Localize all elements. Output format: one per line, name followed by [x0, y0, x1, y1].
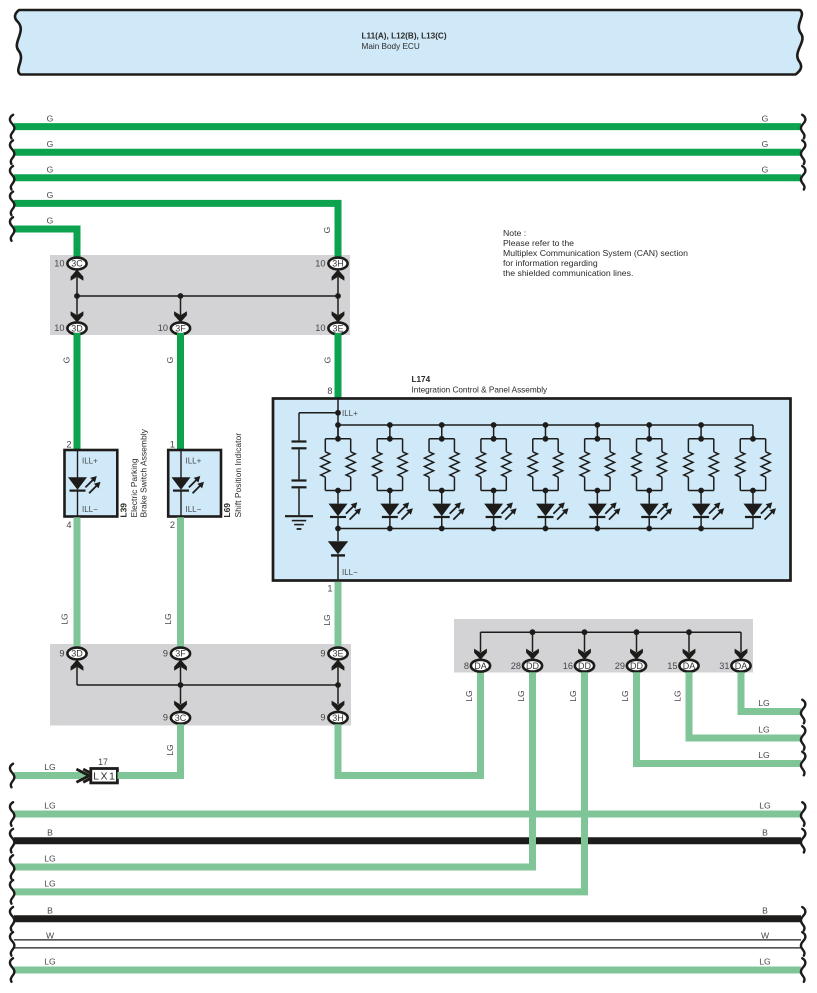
junction dot (180.5,296) [178, 293, 184, 299]
svg-text:10: 10 [54, 258, 64, 268]
chevrons >> [76, 769, 89, 782]
arrow into 3E [332, 311, 345, 322]
svg-text:ILL+: ILL+ [186, 457, 202, 466]
arrow into 3C lower [174, 701, 187, 712]
svg-text:LG: LG [673, 690, 683, 702]
svg-text:8: 8 [327, 386, 332, 396]
svg-text:G: G [762, 139, 769, 149]
capacitor C2 [292, 479, 307, 481]
wire LG from DD 29 to right [637, 672, 802, 763]
arrow into 3H [332, 270, 345, 281]
svg-text:9: 9 [163, 648, 168, 658]
connector 3E pin 10 [328, 322, 347, 334]
svg-text:10: 10 [158, 323, 168, 333]
svg-text:LG: LG [758, 698, 770, 708]
svg-text:ILL−: ILL− [82, 505, 98, 514]
junction bus line (upper block) [77, 295, 338, 297]
svg-text:LG: LG [758, 750, 770, 760]
svg-text:15: 15 [667, 661, 677, 671]
connector DA pin 31 [731, 660, 750, 672]
illumination branch 5: resistor pair + LED [543, 422, 549, 428]
svg-text:LG: LG [60, 613, 70, 625]
wire LG from LX1 to 3C lower [118, 724, 181, 775]
svg-text:DD: DD [526, 661, 539, 671]
Main Body ECU connector block (shield junction, upper) [50, 255, 350, 335]
svg-text:LG: LG [44, 957, 56, 967]
svg-text:G: G [47, 165, 54, 175]
illumination branch 6: resistor pair + LED [594, 422, 600, 428]
wire LG bottom #3 (to DD 16) [14, 888, 588, 895]
svg-text:8: 8 [464, 661, 469, 671]
svg-text:Multiplex Communication System: Multiplex Communication System (CAN) sec… [503, 248, 688, 258]
svg-text:LG: LG [759, 957, 771, 967]
svg-text:LG: LG [759, 801, 771, 811]
svg-text:10: 10 [315, 323, 325, 333]
top bus inside L174 [338, 424, 753, 426]
wire G horizontal #3 [14, 174, 801, 181]
connector 3H pin 9 [328, 712, 347, 724]
wire B bottom #2 [14, 915, 801, 922]
svg-text:29: 29 [615, 661, 625, 671]
svg-text:3D: 3D [71, 649, 83, 659]
connector DD pin 16 [575, 660, 594, 672]
output diode to ILL- [337, 529, 339, 542]
connector 3C pin 10 [67, 258, 86, 270]
svg-text:16: 16 [563, 661, 573, 671]
svg-text:G: G [165, 356, 175, 363]
svg-text:Note :: Note : [503, 228, 526, 238]
LED inside L69 [172, 477, 191, 490]
Integration Control & Panel Assembly connector block [454, 619, 753, 673]
connector DD pin 28 [523, 660, 542, 672]
svg-text:LX1: LX1 [93, 772, 115, 783]
svg-text:W: W [761, 931, 770, 941]
svg-text:3H: 3H [332, 259, 344, 269]
svg-text:31: 31 [719, 661, 729, 671]
svg-text:G: G [47, 139, 54, 149]
svg-text:G: G [47, 113, 54, 123]
bus line (right block) [481, 631, 742, 633]
svg-text:3E: 3E [332, 649, 343, 659]
wire G from 3F to L69 [177, 333, 184, 449]
svg-text:LG: LG [464, 690, 474, 702]
svg-text:3C: 3C [71, 259, 83, 269]
svg-text:L69: L69 [222, 503, 232, 518]
svg-text:Main Body ECU: Main Body ECU [362, 42, 420, 51]
wire stub into 3F lower [177, 643, 184, 648]
svg-text:LG: LG [322, 614, 332, 626]
arrow into 3C [71, 270, 84, 281]
L39 Electric Parking Brake Switch Assembly [65, 450, 118, 517]
connector DA pin 15 [679, 660, 698, 672]
svg-text:ILL−: ILL− [186, 505, 202, 514]
arrow into 3D [71, 311, 84, 322]
wire LG from 3H lower to DA pin 8 [338, 672, 481, 775]
svg-text:G: G [762, 113, 769, 123]
wire G #5 (to connector 3C) [14, 229, 77, 259]
L69 Shift Position Indicator [168, 450, 221, 517]
wire G horizontal #2 [14, 149, 801, 156]
connector 3H pin 10 [328, 258, 347, 270]
connector DD pin 29 [627, 660, 646, 672]
wire stub into 3H [335, 254, 342, 258]
bottom bus inside L174 [338, 528, 753, 530]
node ILL+ entry [337, 399, 339, 439]
svg-text:DA: DA [474, 661, 487, 671]
wire LG from DA 15 to right [689, 672, 801, 738]
arrow into 3D lower [71, 660, 84, 671]
svg-text:3C: 3C [175, 713, 187, 723]
wire G horizontal #1 [14, 123, 801, 130]
svg-text:DD: DD [630, 661, 643, 671]
junction bus line (lower block) [77, 684, 338, 686]
svg-text:ILL+: ILL+ [82, 457, 98, 466]
junction dot (338,685) [335, 682, 341, 688]
illumination branch 9: resistor pair + LED [750, 436, 756, 442]
connector 3D pin 10 [67, 322, 86, 334]
svg-text:G: G [47, 190, 54, 200]
arrow into DA pin 15 [683, 649, 696, 660]
junction dot (338,296) [335, 293, 341, 299]
wire stub into 3D lower [74, 643, 81, 648]
arrow into DA pin 8 [474, 649, 487, 660]
wire LG from DD 28 down to lower LG wire [529, 672, 536, 867]
svg-text:LG: LG [44, 801, 56, 811]
wire LG bottom #2 (to DD 28) [14, 864, 536, 871]
wire LG from DD 16 down to lower LG wire [581, 672, 588, 892]
svg-text:3F: 3F [175, 649, 186, 659]
Main Body ECU connector block (shield junction, lower) [50, 644, 351, 726]
arrow into DA pin 31 [735, 649, 748, 660]
junction dot (77,296) [74, 293, 80, 299]
svg-text:L39: L39 [119, 503, 129, 518]
wire G #4 (to connector 3H) [14, 203, 338, 259]
svg-text:DA: DA [735, 661, 748, 671]
svg-text:DA: DA [683, 661, 696, 671]
svg-text:LG: LG [163, 613, 173, 625]
svg-text:for information regarding: for information regarding [503, 258, 598, 268]
junction dots (right block) [530, 629, 536, 635]
arrow into DD pin 16 [578, 649, 591, 660]
svg-text:Shift Position Indicator: Shift Position Indicator [233, 433, 243, 518]
connector 3F pin 10 [171, 322, 190, 334]
wire LG from DA 31 to right [741, 672, 801, 711]
svg-text:G: G [323, 356, 333, 363]
svg-text:10: 10 [54, 323, 64, 333]
svg-text:G: G [62, 356, 72, 363]
svg-text:LG: LG [620, 690, 630, 702]
wire LG to LX1 [14, 772, 90, 779]
svg-text:3H: 3H [332, 713, 344, 723]
svg-text:DD: DD [578, 661, 591, 671]
wire to capacitors [299, 412, 338, 414]
svg-text:LG: LG [165, 744, 175, 756]
svg-text:3F: 3F [175, 324, 186, 334]
svg-text:ILL+: ILL+ [342, 409, 358, 418]
svg-text:G: G [47, 216, 54, 226]
wire B bottom #1 [14, 837, 801, 844]
svg-text:LG: LG [516, 690, 526, 702]
arrow into 3H lower [332, 701, 345, 712]
svg-text:G: G [322, 226, 332, 233]
illumination branch 1: resistor pair + LED [335, 422, 341, 428]
illumination branch 2: resistor pair + LED [387, 422, 393, 428]
illumination branch 4: resistor pair + LED [491, 422, 497, 428]
connector 3D pin 9 [67, 648, 86, 660]
illumination branch 3: resistor pair + LED [439, 422, 445, 428]
wire LG bottom #1 [14, 811, 801, 818]
arrow into 3E lower [332, 660, 345, 671]
wire stub into 3E lower [335, 643, 342, 648]
svg-text:1: 1 [327, 583, 332, 593]
svg-text:4: 4 [66, 520, 71, 530]
svg-text:28: 28 [511, 661, 521, 671]
ground symbol [285, 515, 313, 517]
svg-text:Brake Switch Assembly: Brake Switch Assembly [139, 428, 149, 517]
svg-text:ILL−: ILL− [342, 568, 358, 577]
svg-text:3E: 3E [332, 324, 343, 334]
svg-text:9: 9 [163, 713, 168, 723]
svg-text:9: 9 [320, 713, 325, 723]
svg-text:2: 2 [170, 520, 175, 530]
arrow into DD pin 29 [630, 649, 643, 660]
svg-text:W: W [46, 931, 55, 941]
svg-text:10: 10 [315, 258, 325, 268]
svg-text:3D: 3D [71, 324, 83, 334]
svg-text:2: 2 [66, 440, 71, 450]
arrow into 3F [174, 311, 187, 322]
svg-text:9: 9 [320, 648, 325, 658]
connector DA pin 8 [471, 660, 490, 672]
crossing verticals drawn over [529, 806, 536, 871]
wire G from 3D to L39 [74, 333, 81, 449]
wire stub into 3C [74, 254, 81, 258]
svg-text:LG: LG [44, 879, 56, 889]
wire G from 3E to L174 pin 8 [335, 333, 342, 398]
arrow into 3F lower [174, 660, 187, 671]
LED inside L39 [68, 477, 87, 490]
svg-text:LG: LG [568, 690, 578, 702]
svg-text:B: B [47, 906, 53, 916]
svg-text:17: 17 [98, 757, 108, 767]
svg-text:L174: L174 [412, 375, 431, 384]
arrow into DD pin 28 [526, 649, 539, 660]
svg-text:Please refer to the: Please refer to the [503, 238, 574, 248]
illumination branch 8: resistor pair + LED [698, 422, 704, 428]
connector LX1 pin 17 [91, 769, 118, 783]
wire LG from L39 pin 4 to 3D [74, 517, 81, 649]
svg-text:the shielded communication lin: the shielded communication lines. [503, 268, 633, 278]
Main Body ECU banner L11(A) L12(B) L13(C) [15, 10, 802, 75]
illumination branch 7: resistor pair + LED [646, 422, 652, 428]
wire LG bottom #4 [14, 967, 801, 974]
svg-text:1: 1 [170, 440, 175, 450]
wire W bottom [14, 939, 801, 941]
connector 3F pin 9 [171, 648, 190, 660]
svg-text:9: 9 [59, 648, 64, 658]
svg-text:Integration Control & Panel As: Integration Control & Panel Assembly [412, 386, 549, 395]
wire LG from L174 pin 1 to 3E [335, 582, 342, 649]
connector 3E pin 9 [328, 648, 347, 660]
svg-text:B: B [762, 906, 768, 916]
capacitor C1 [292, 440, 307, 442]
junction dot (180.5,685) [178, 682, 184, 688]
svg-text:LG: LG [44, 854, 56, 864]
svg-text:B: B [762, 827, 768, 837]
svg-text:G: G [762, 165, 769, 175]
svg-text:L11(A), L12(B), L13(C): L11(A), L12(B), L13(C) [362, 32, 447, 41]
wire LG from L69 pin 2 to 3F [177, 517, 184, 649]
svg-text:LG: LG [44, 762, 56, 772]
svg-text:B: B [47, 827, 53, 837]
connector 3C pin 9 [171, 712, 190, 724]
svg-text:LG: LG [758, 725, 770, 735]
